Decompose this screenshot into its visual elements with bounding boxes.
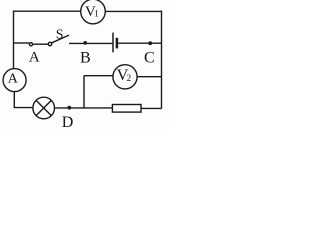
svg-text:A: A [29, 49, 40, 65]
svg-text:B: B [80, 50, 91, 67]
svg-text:S: S [56, 28, 64, 43]
svg-text:A: A [8, 72, 19, 87]
svg-text:1: 1 [94, 9, 99, 19]
svg-text:2: 2 [127, 73, 132, 83]
svg-text:D: D [62, 114, 74, 129]
svg-text:C: C [144, 50, 155, 67]
